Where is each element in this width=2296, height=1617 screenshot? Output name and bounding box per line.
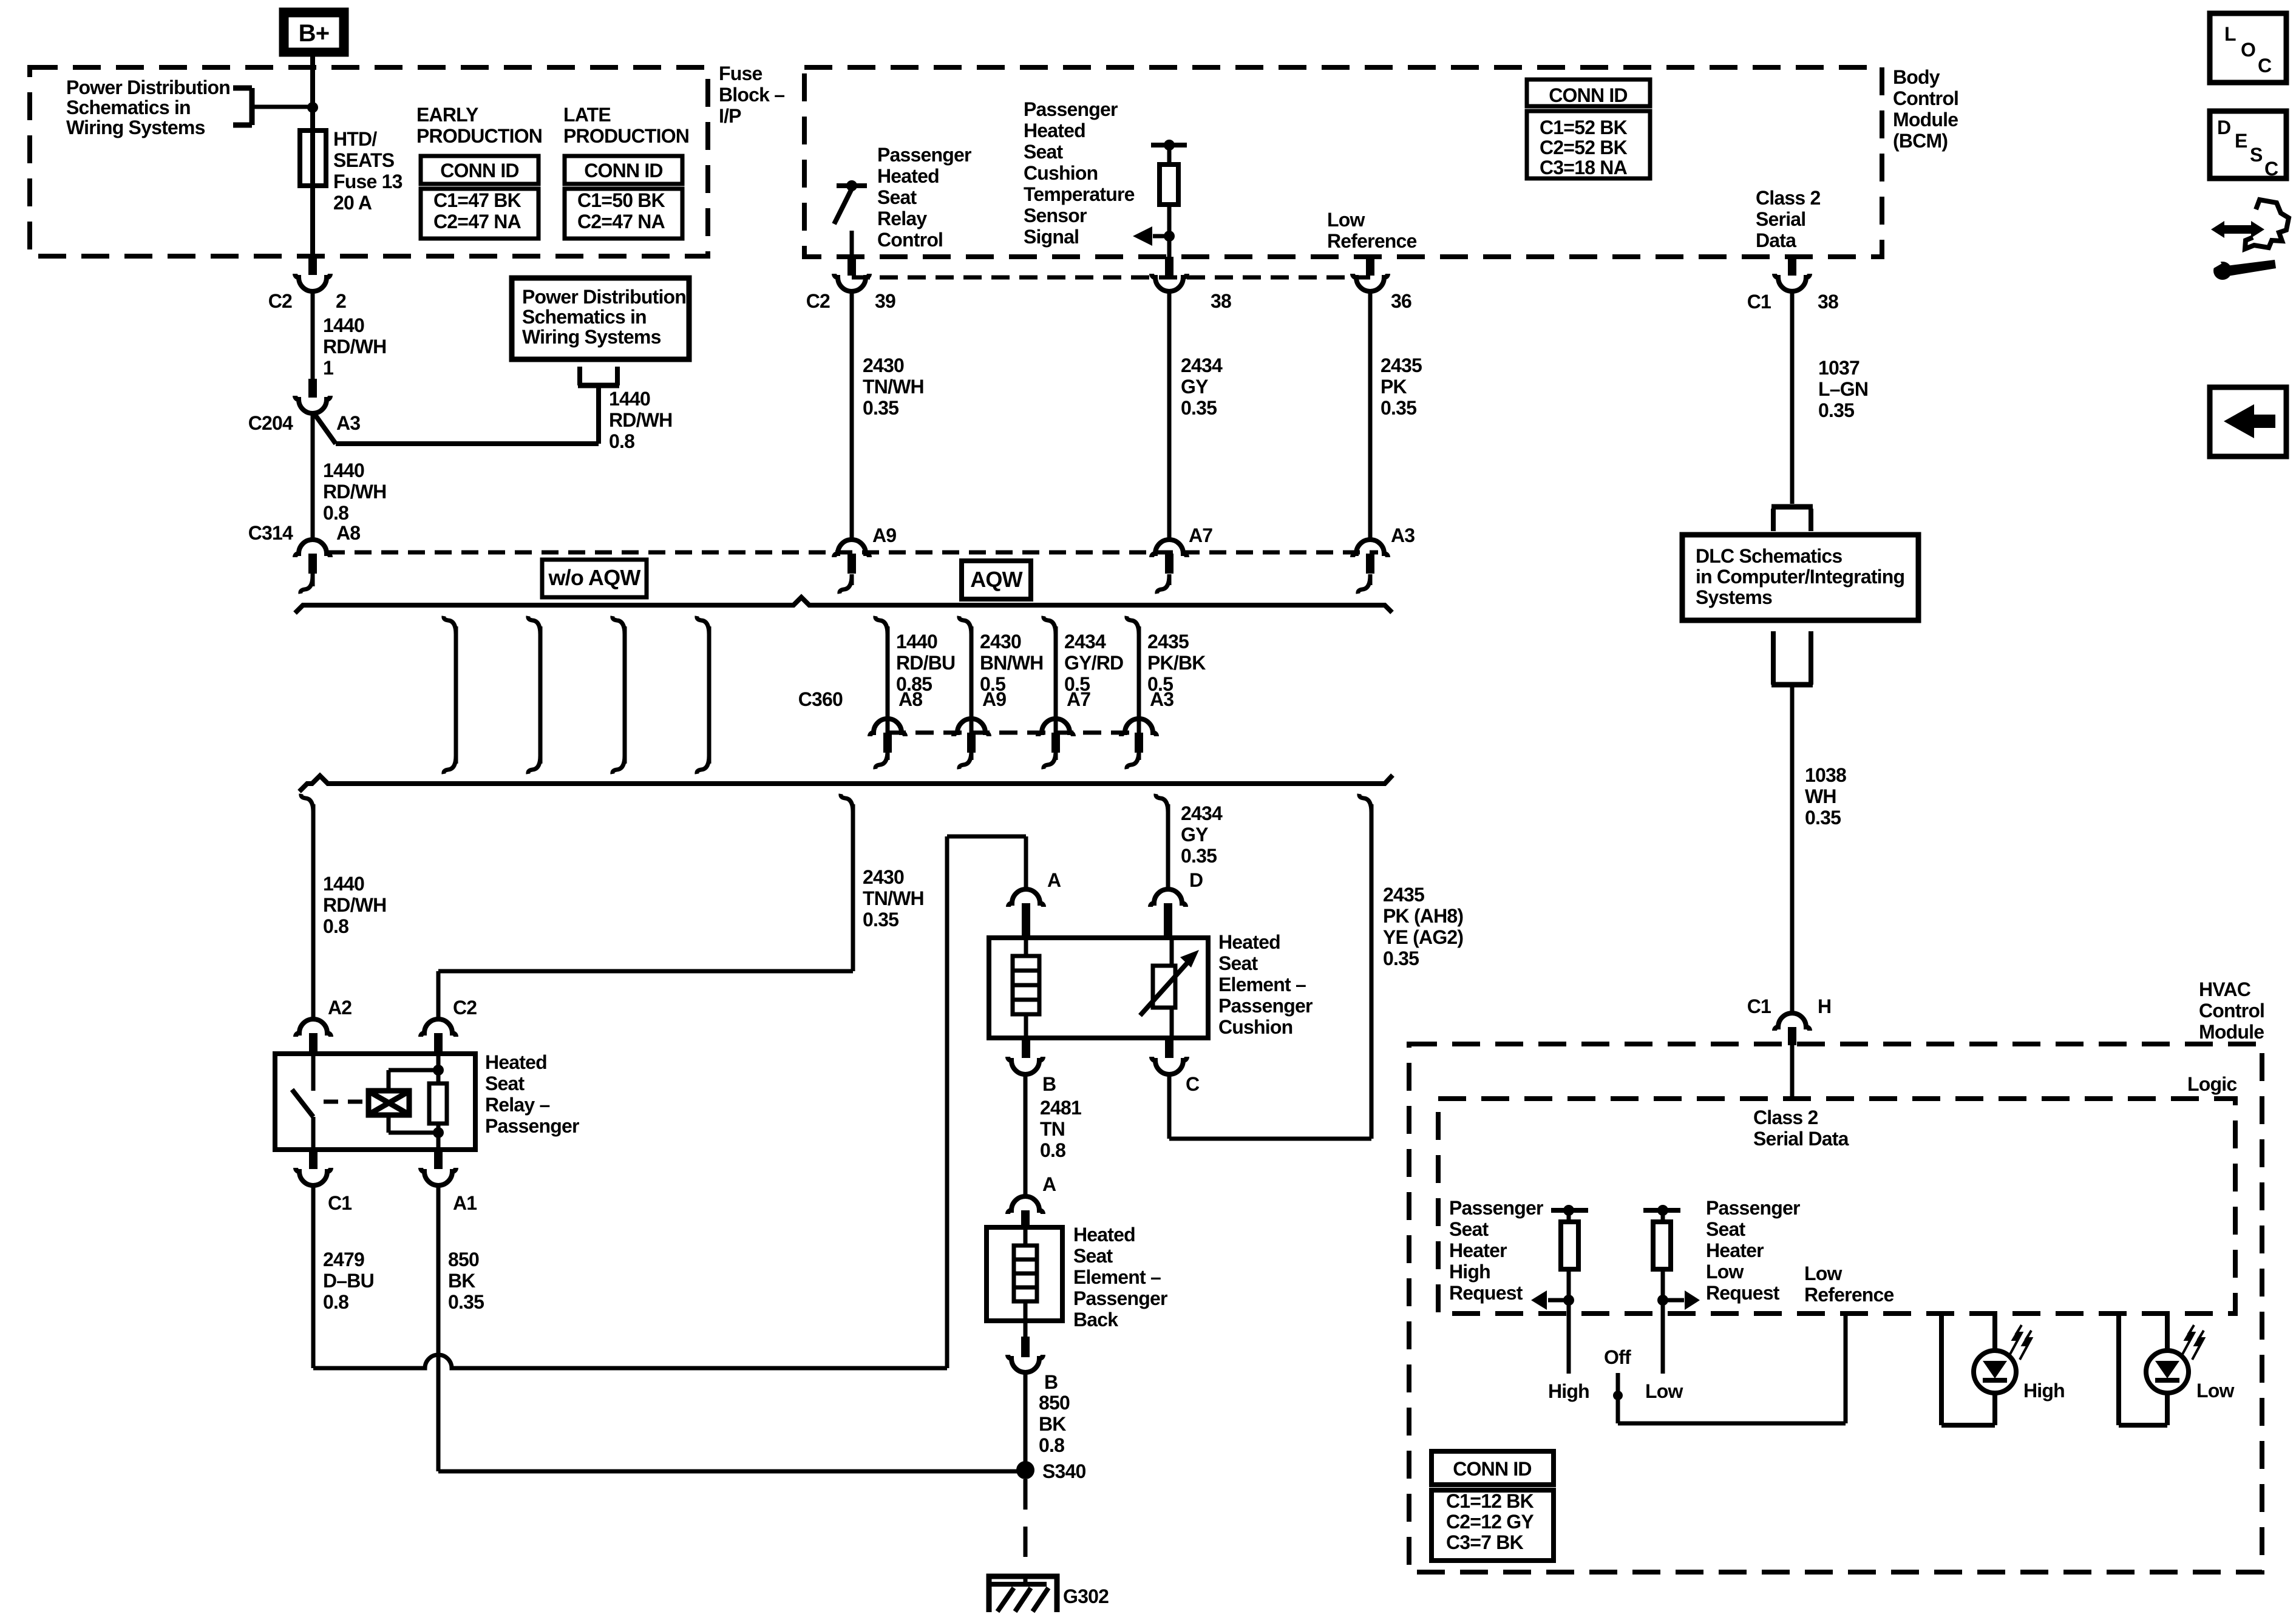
svg-text:in Computer/Integrating: in Computer/Integrating bbox=[1696, 566, 1904, 588]
svg-text:AQW: AQW bbox=[970, 567, 1022, 592]
CONN ID table BCM bbox=[1527, 80, 1650, 106]
wire end curl below C314 bbox=[311, 574, 315, 586]
svg-text:Low: Low bbox=[1645, 1380, 1683, 1402]
svg-text:Signal: Signal bbox=[1024, 226, 1079, 248]
svg-text:Low: Low bbox=[1706, 1261, 1744, 1283]
svg-text:0.35: 0.35 bbox=[1181, 397, 1217, 419]
wire 2435 PK 0.35 (pin 36 down) bbox=[1368, 291, 1373, 540]
svg-text:A3: A3 bbox=[1391, 524, 1415, 546]
icon LOC box bbox=[2210, 13, 2286, 83]
svg-text:Schematics in: Schematics in bbox=[522, 306, 647, 328]
CONN ID table HVAC bbox=[1432, 1451, 1554, 1485]
svg-text:Passenger: Passenger bbox=[877, 144, 971, 166]
arrow low request (output) bbox=[1663, 1298, 1684, 1303]
svg-text:Cushion: Cushion bbox=[1218, 1016, 1292, 1038]
svg-text:0.8: 0.8 bbox=[1039, 1434, 1064, 1456]
svg-text:A: A bbox=[1042, 1173, 1056, 1195]
connector C360 pin A3 bbox=[1121, 719, 1156, 736]
relay switch common to C1 bbox=[311, 1117, 316, 1150]
connector BCM C2 pin 36 bbox=[1366, 257, 1374, 276]
svg-text:CONN ID: CONN ID bbox=[1549, 84, 1628, 106]
unused pass-through wire loop 4 bbox=[697, 616, 709, 634]
svg-text:1440: 1440 bbox=[896, 631, 937, 653]
svg-text:L–GN: L–GN bbox=[1818, 378, 1868, 400]
svg-text:0.35: 0.35 bbox=[1383, 947, 1419, 969]
connector harness pin A7 bbox=[1152, 540, 1187, 557]
svg-text:Element –: Element – bbox=[1218, 974, 1306, 995]
svg-text:C3=7 BK: C3=7 BK bbox=[1446, 1531, 1524, 1553]
svg-text:C1=47 BK: C1=47 BK bbox=[433, 189, 521, 211]
svg-text:Seat: Seat bbox=[1218, 952, 1258, 974]
relay switch lever bbox=[292, 1090, 313, 1117]
svg-text:(BCM): (BCM) bbox=[1893, 130, 1948, 152]
svg-text:I/P: I/P bbox=[719, 105, 741, 127]
reference box DLC Schematics in Computer/Integrating Systems bbox=[1682, 535, 1918, 620]
svg-text:A9: A9 bbox=[872, 524, 896, 546]
svg-text:Serial Data: Serial Data bbox=[1753, 1128, 1849, 1150]
icon wiring navigation (wrench) bbox=[2213, 262, 2232, 280]
wire 1440 RD/WH 0.8 to relay A2 bbox=[301, 794, 313, 812]
svg-text:Module: Module bbox=[2199, 1021, 2264, 1043]
svg-text:2435: 2435 bbox=[1147, 631, 1189, 653]
svg-text:36: 36 bbox=[1391, 290, 1411, 312]
svg-text:D–BU: D–BU bbox=[323, 1270, 374, 1292]
svg-text:Module: Module bbox=[1893, 109, 1958, 131]
wire 2430 TN/WH 0.35 to relay C2 bbox=[841, 794, 853, 812]
svg-text:S: S bbox=[2250, 144, 2263, 166]
connector BCM C2 pin 39 bbox=[847, 257, 856, 276]
wire low reference to pin 36 bbox=[1368, 255, 1373, 259]
svg-text:1038: 1038 bbox=[1805, 764, 1846, 786]
connector back pin A bbox=[1008, 1196, 1043, 1214]
svg-text:Cushion: Cushion bbox=[1024, 162, 1098, 184]
svg-text:TN/WH: TN/WH bbox=[863, 376, 924, 398]
svg-text:Request: Request bbox=[1706, 1282, 1780, 1304]
svg-text:0.35: 0.35 bbox=[863, 909, 898, 931]
svg-text:Power Distribution: Power Distribution bbox=[66, 76, 230, 98]
heated seat element passenger back box bbox=[987, 1227, 1062, 1321]
AQW wire 2434 GY/RD 0.5 bbox=[1044, 616, 1056, 634]
label box AQW bbox=[962, 561, 1031, 599]
wire high contact bbox=[1567, 1304, 1571, 1374]
svg-text:C2: C2 bbox=[268, 290, 292, 312]
svg-text:Passenger: Passenger bbox=[1073, 1287, 1167, 1309]
svg-text:WH: WH bbox=[1805, 785, 1836, 807]
svg-text:LATE: LATE bbox=[563, 104, 611, 126]
svg-text:Passenger: Passenger bbox=[1449, 1197, 1543, 1219]
wire 850 BK 0.35 (relay A1 to S340) bbox=[436, 1185, 441, 1471]
AQW wire 1440 RD/BU 0.85 bbox=[875, 616, 888, 634]
svg-text:C1=52 BK: C1=52 BK bbox=[1540, 117, 1628, 138]
svg-text:1440: 1440 bbox=[609, 388, 650, 410]
svg-text:Heated: Heated bbox=[1073, 1224, 1135, 1246]
svg-text:Wiring Systems: Wiring Systems bbox=[66, 117, 205, 138]
connector C314 pin A8 bbox=[295, 540, 330, 557]
reference box Power Distribution Schematics in Wiring Systems bbox=[512, 278, 689, 359]
junction coil top bbox=[433, 1065, 444, 1076]
svg-text:2: 2 bbox=[336, 290, 346, 312]
svg-text:Control: Control bbox=[2199, 1000, 2264, 1022]
svg-text:Serial: Serial bbox=[1756, 208, 1805, 230]
svg-text:Request: Request bbox=[1449, 1282, 1523, 1304]
svg-text:1440: 1440 bbox=[323, 459, 364, 481]
svg-text:Low: Low bbox=[2196, 1380, 2234, 1402]
cushion heater element bbox=[1024, 938, 1028, 956]
connector cushion pin C bbox=[1165, 1038, 1173, 1058]
svg-text:Seat: Seat bbox=[1449, 1218, 1489, 1240]
wire 2434 GY 0.35 to cushion D bbox=[1156, 794, 1168, 812]
svg-text:C1: C1 bbox=[1747, 995, 1771, 1017]
svg-text:High: High bbox=[2023, 1380, 2065, 1402]
svg-text:1: 1 bbox=[323, 357, 333, 379]
wire 2435 PK/YE 0.35 (cushion C to harness) bbox=[1167, 1074, 1172, 1139]
svg-text:S340: S340 bbox=[1042, 1460, 1086, 1482]
svg-text:20 A: 20 A bbox=[333, 192, 372, 214]
connector BCM C2 pin 38 bbox=[1165, 257, 1173, 276]
svg-text:A2: A2 bbox=[328, 997, 352, 1019]
svg-text:Fuse 13: Fuse 13 bbox=[333, 171, 402, 192]
junction on B+ feed bbox=[307, 102, 318, 113]
svg-text:TN/WH: TN/WH bbox=[863, 887, 924, 909]
svg-text:A7: A7 bbox=[1067, 688, 1090, 710]
svg-text:PRODUCTION: PRODUCTION bbox=[416, 125, 542, 147]
svg-text:Passenger: Passenger bbox=[1706, 1197, 1800, 1219]
svg-text:HTD/: HTD/ bbox=[333, 128, 377, 150]
svg-text:EARLY: EARLY bbox=[416, 104, 478, 126]
wire B+ feed down into fuse block bbox=[310, 56, 315, 256]
unused pass-through wire loop 3 bbox=[613, 616, 625, 634]
high request pull-up resistor bbox=[1551, 1208, 1588, 1213]
svg-text:RD/WH: RD/WH bbox=[323, 894, 386, 916]
connector cushion pin B bbox=[1022, 1038, 1030, 1058]
wire low contact bbox=[1661, 1304, 1665, 1374]
icon DESC box bbox=[2210, 111, 2286, 178]
svg-text:2434: 2434 bbox=[1064, 631, 1106, 653]
AQW wire 2430 BN/WH 0.5 bbox=[959, 616, 971, 634]
connector relay pin C2 bbox=[421, 1019, 456, 1037]
svg-text:RD/WH: RD/WH bbox=[609, 409, 672, 431]
connector C360 dotted row bbox=[888, 731, 1139, 735]
svg-text:PRODUCTION: PRODUCTION bbox=[563, 125, 689, 147]
wire 850 BK to ground (dashed) bbox=[1024, 1479, 1028, 1575]
svg-text:TN: TN bbox=[1040, 1118, 1065, 1140]
switch off pivot bbox=[1613, 1391, 1623, 1400]
svg-text:B+: B+ bbox=[299, 20, 330, 47]
relay coil suppression resistor bbox=[436, 1054, 441, 1083]
svg-text:CONN ID: CONN ID bbox=[1453, 1458, 1532, 1480]
svg-text:A3: A3 bbox=[1150, 688, 1173, 710]
connector cushion pin A bbox=[1008, 889, 1044, 907]
svg-text:Schematics in: Schematics in bbox=[66, 97, 191, 118]
svg-text:Seat: Seat bbox=[877, 186, 917, 208]
svg-text:Seat: Seat bbox=[485, 1073, 525, 1094]
wire branch from C204 to power distribution reference bbox=[314, 414, 336, 444]
HVAC logic inner dashed box bbox=[1438, 1099, 2235, 1314]
connector C360 pin A8 bbox=[870, 719, 905, 736]
heated seat element passenger cushion box bbox=[989, 938, 1208, 1038]
relay switch contact (A2 side) bbox=[311, 1054, 316, 1091]
svg-text:CONN ID: CONN ID bbox=[584, 160, 663, 181]
HVAC control module dashed box bbox=[1409, 1044, 2262, 1572]
svg-text:Low: Low bbox=[1327, 209, 1365, 231]
svg-text:H: H bbox=[1818, 995, 1831, 1017]
svg-text:C1=50 BK: C1=50 BK bbox=[577, 189, 665, 211]
cushion temperature sensor (variable resistor) bbox=[1170, 938, 1174, 966]
svg-text:Body: Body bbox=[1893, 66, 1940, 88]
icon wiring navigation (connector outline) bbox=[2245, 200, 2289, 249]
svg-text:w/o AQW: w/o AQW bbox=[548, 565, 640, 590]
svg-text:C2=12 GY: C2=12 GY bbox=[1446, 1511, 1533, 1533]
bracket from power distribution note to B+ wire bbox=[250, 88, 255, 125]
svg-text:0.35: 0.35 bbox=[1381, 397, 1416, 419]
svg-text:Passenger: Passenger bbox=[1218, 995, 1313, 1017]
svg-text:E: E bbox=[2235, 130, 2247, 152]
connector back pin B bbox=[1024, 1321, 1028, 1337]
svg-text:0.35: 0.35 bbox=[1805, 807, 1841, 829]
icon back arrow box bbox=[2210, 387, 2286, 456]
svg-text:High: High bbox=[1449, 1261, 1490, 1283]
wire sensor signal to pin 38 bbox=[1167, 240, 1172, 257]
svg-text:38: 38 bbox=[1211, 290, 1231, 312]
svg-text:PK/BK: PK/BK bbox=[1147, 652, 1206, 674]
svg-text:Passenger: Passenger bbox=[1024, 98, 1118, 120]
svg-text:2430: 2430 bbox=[980, 631, 1021, 653]
svg-text:Low: Low bbox=[1804, 1263, 1842, 1284]
svg-text:A1: A1 bbox=[453, 1192, 477, 1214]
svg-text:A9: A9 bbox=[982, 688, 1006, 710]
wire 850 BK 0.8 (back B to S340) bbox=[1024, 1372, 1028, 1463]
svg-text:CONN ID: CONN ID bbox=[440, 160, 519, 181]
wire A1 node to pin bbox=[436, 1133, 441, 1150]
svg-text:A: A bbox=[1047, 869, 1061, 891]
arrow high request (input) bbox=[1548, 1298, 1569, 1303]
wire 2479 D-BU 0.8 (relay C1 to element A) bbox=[311, 1185, 316, 1368]
svg-text:D: D bbox=[1189, 869, 1203, 891]
svg-text:Class 2: Class 2 bbox=[1756, 187, 1820, 209]
svg-text:RD/BU: RD/BU bbox=[896, 652, 955, 674]
junction low request bbox=[1657, 1295, 1668, 1306]
svg-text:A8: A8 bbox=[898, 688, 922, 710]
svg-text:GY: GY bbox=[1181, 376, 1208, 398]
connector C204 pin A3 bbox=[308, 379, 317, 398]
svg-text:BK: BK bbox=[1039, 1413, 1066, 1435]
BCM connector C2 dotted row bbox=[852, 276, 1370, 280]
svg-text:1440: 1440 bbox=[323, 873, 364, 895]
svg-text:C1=12 BK: C1=12 BK bbox=[1446, 1490, 1534, 1512]
svg-text:BK: BK bbox=[448, 1270, 475, 1292]
svg-text:BN/WH: BN/WH bbox=[980, 652, 1043, 674]
svg-text:Reference: Reference bbox=[1804, 1284, 1894, 1306]
wire 1037 L-GN 0.35 bbox=[1790, 291, 1795, 504]
svg-text:Sensor: Sensor bbox=[1024, 205, 1087, 226]
svg-text:A3: A3 bbox=[336, 412, 360, 434]
svg-text:2434: 2434 bbox=[1181, 354, 1223, 376]
relay actuation dashed link bbox=[324, 1100, 364, 1104]
svg-text:C3=18 NA: C3=18 NA bbox=[1540, 157, 1628, 178]
svg-text:Heater: Heater bbox=[1706, 1239, 1764, 1261]
unused pass-through wire loop 1 bbox=[444, 616, 456, 634]
svg-text:Back: Back bbox=[1073, 1309, 1118, 1331]
svg-text:Reference: Reference bbox=[1327, 230, 1417, 252]
ground G302 symbol bbox=[989, 1576, 1057, 1612]
svg-text:1037: 1037 bbox=[1818, 357, 1860, 379]
LED indicator high circuit bbox=[1939, 1314, 1944, 1425]
LED high bbox=[1974, 1351, 2016, 1393]
node B+ battery positive box bbox=[279, 8, 348, 56]
svg-text:0.35: 0.35 bbox=[1818, 399, 1854, 421]
svg-text:Systems: Systems bbox=[1696, 586, 1772, 608]
svg-text:0.35: 0.35 bbox=[1181, 845, 1217, 867]
svg-text:C2=52 BK: C2=52 BK bbox=[1540, 137, 1628, 158]
BCM temperature sensor pull-up resistor bbox=[1151, 143, 1187, 147]
wire 1038 WH 0.35 bbox=[1790, 685, 1795, 1013]
connector harness pin A9 bbox=[834, 540, 869, 557]
junction coil bottom bbox=[433, 1127, 444, 1138]
svg-text:C2=47 NA: C2=47 NA bbox=[577, 211, 665, 232]
connector C360 pin A7 bbox=[1038, 719, 1073, 736]
svg-text:Control: Control bbox=[1893, 87, 1958, 109]
connector BCM C1 pin 38 (class 2) bbox=[1788, 257, 1796, 276]
junction high request bbox=[1563, 1295, 1574, 1306]
back heater element bbox=[1024, 1227, 1028, 1246]
unused pass-through wire loop 2 bbox=[528, 616, 540, 634]
svg-text:GY/RD: GY/RD bbox=[1064, 652, 1123, 674]
svg-text:Relay –: Relay – bbox=[485, 1094, 549, 1116]
wire 1440 RD/WH 1 (fuse to C204) bbox=[311, 291, 315, 379]
wire coil bottom to A1 node bbox=[387, 1115, 391, 1133]
svg-text:C2: C2 bbox=[453, 997, 477, 1019]
svg-text:Data: Data bbox=[1756, 229, 1796, 251]
body control module dashed box bbox=[804, 67, 1882, 257]
LED high light rays bbox=[2010, 1325, 2022, 1354]
junction temperature sensor signal bbox=[1164, 231, 1175, 242]
svg-text:0.8: 0.8 bbox=[323, 1291, 348, 1313]
connector harness pin A3 bbox=[1353, 540, 1388, 557]
LED indicator low circuit bbox=[2116, 1314, 2121, 1425]
bus wire lower (harness) bbox=[299, 775, 1393, 792]
fuse F13 HTD/SEATS 20A bbox=[300, 131, 326, 186]
svg-text:High: High bbox=[1548, 1380, 1589, 1402]
connector relay pin A2 bbox=[296, 1019, 331, 1037]
svg-text:Block –: Block – bbox=[719, 84, 784, 106]
wire class 2 into HVAC logic bbox=[1790, 1045, 1795, 1099]
icon wiring navigation (double arrow) bbox=[2219, 225, 2257, 234]
svg-text:C1: C1 bbox=[1747, 291, 1771, 313]
svg-text:Power Distribution: Power Distribution bbox=[522, 286, 686, 308]
svg-text:RD/WH: RD/WH bbox=[323, 336, 386, 358]
svg-text:38: 38 bbox=[1818, 291, 1838, 313]
svg-text:0.8: 0.8 bbox=[323, 915, 348, 937]
LED low bbox=[2146, 1351, 2189, 1393]
svg-text:Seat: Seat bbox=[1073, 1245, 1113, 1267]
svg-text:RD/WH: RD/WH bbox=[323, 481, 386, 503]
svg-text:C2: C2 bbox=[806, 290, 830, 312]
svg-text:2479: 2479 bbox=[323, 1249, 364, 1270]
svg-text:Heated: Heated bbox=[1024, 120, 1085, 141]
svg-text:HVAC: HVAC bbox=[2199, 978, 2251, 1000]
fork symbol to power distribution box bbox=[578, 383, 619, 388]
connector HVAC C1 pin H bbox=[1775, 1013, 1810, 1031]
svg-text:2434: 2434 bbox=[1181, 802, 1223, 824]
svg-text:Seat: Seat bbox=[1024, 141, 1064, 163]
label box w/o AQW bbox=[542, 560, 647, 597]
wire 2434 GY 0.35 (pin 38 down) bbox=[1167, 291, 1172, 540]
svg-text:C: C bbox=[2264, 158, 2278, 180]
svg-text:850: 850 bbox=[1039, 1392, 1070, 1414]
svg-text:A7: A7 bbox=[1189, 524, 1212, 546]
splice S340 bbox=[1016, 1461, 1034, 1479]
fork symbol to DLC reference bbox=[1771, 504, 1813, 510]
switch off position wire bbox=[1616, 1373, 1620, 1391]
connector relay pin C1 bbox=[309, 1150, 318, 1169]
svg-text:Logic: Logic bbox=[2187, 1073, 2237, 1095]
wire off to low reference bbox=[1616, 1399, 1620, 1423]
svg-text:C: C bbox=[2258, 55, 2272, 76]
svg-text:O: O bbox=[2241, 39, 2255, 61]
connector relay pin A1 bbox=[434, 1150, 443, 1169]
svg-text:Off: Off bbox=[1604, 1346, 1631, 1368]
wire 2481 TN 0.8 (cushion B to back A) bbox=[1024, 1074, 1028, 1196]
svg-text:2430: 2430 bbox=[863, 866, 904, 888]
svg-text:1440: 1440 bbox=[323, 314, 364, 336]
svg-text:Class 2: Class 2 bbox=[1753, 1107, 1818, 1128]
svg-text:C360: C360 bbox=[798, 688, 843, 710]
CONN ID table late production bbox=[565, 156, 682, 184]
svg-text:Temperature: Temperature bbox=[1024, 183, 1135, 205]
bus wire upper (harness) bbox=[295, 597, 1392, 613]
svg-text:Control: Control bbox=[877, 229, 943, 251]
svg-text:2481: 2481 bbox=[1040, 1097, 1081, 1119]
svg-text:2435: 2435 bbox=[1381, 354, 1422, 376]
svg-text:Heated: Heated bbox=[877, 165, 939, 187]
svg-text:2435: 2435 bbox=[1383, 884, 1424, 906]
CONN ID table early production bbox=[421, 156, 538, 184]
svg-text:Element –: Element – bbox=[1073, 1266, 1161, 1288]
svg-text:Heated: Heated bbox=[1218, 931, 1280, 953]
svg-text:Heater: Heater bbox=[1449, 1239, 1507, 1261]
svg-text:Passenger: Passenger bbox=[485, 1115, 579, 1137]
svg-text:DLC Schematics: DLC Schematics bbox=[1696, 545, 1842, 567]
harness boundary dotted line (C314 row) bbox=[328, 551, 1378, 555]
svg-text:Seat: Seat bbox=[1706, 1218, 1746, 1240]
svg-text:C1: C1 bbox=[328, 1192, 352, 1214]
svg-text:YE (AG2): YE (AG2) bbox=[1383, 926, 1463, 948]
svg-text:B: B bbox=[1044, 1371, 1058, 1393]
relay coil bbox=[369, 1091, 409, 1115]
wire 1440 RD/WH 0.8 (C204 to C314) bbox=[311, 414, 315, 540]
relay K1 Heated Seat Relay - Passenger box bbox=[275, 1054, 475, 1150]
svg-text:PK: PK bbox=[1381, 376, 1407, 398]
BCM relay control driver switch bbox=[837, 183, 867, 188]
connector cushion pin D bbox=[1150, 889, 1186, 907]
LED low light rays bbox=[2182, 1325, 2194, 1354]
svg-text:L: L bbox=[2224, 23, 2236, 45]
svg-text:850: 850 bbox=[448, 1249, 479, 1270]
svg-text:Relay: Relay bbox=[877, 208, 927, 229]
svg-text:0.35: 0.35 bbox=[448, 1291, 484, 1313]
AQW wire 2435 PK/BK 0.5 bbox=[1127, 616, 1139, 634]
fork symbol from DLC reference bbox=[1771, 682, 1813, 688]
connector C360 pin A9 bbox=[954, 719, 989, 736]
svg-text:C: C bbox=[1186, 1073, 1200, 1095]
svg-text:Heated: Heated bbox=[485, 1051, 547, 1073]
svg-text:SEATS: SEATS bbox=[333, 149, 395, 171]
svg-text:C2=47 NA: C2=47 NA bbox=[433, 211, 521, 232]
svg-text:Wiring Systems: Wiring Systems bbox=[522, 326, 661, 348]
fuse block I/P dashed box bbox=[30, 67, 708, 256]
svg-text:PK (AH8): PK (AH8) bbox=[1383, 905, 1463, 927]
svg-text:0.8: 0.8 bbox=[609, 430, 634, 452]
